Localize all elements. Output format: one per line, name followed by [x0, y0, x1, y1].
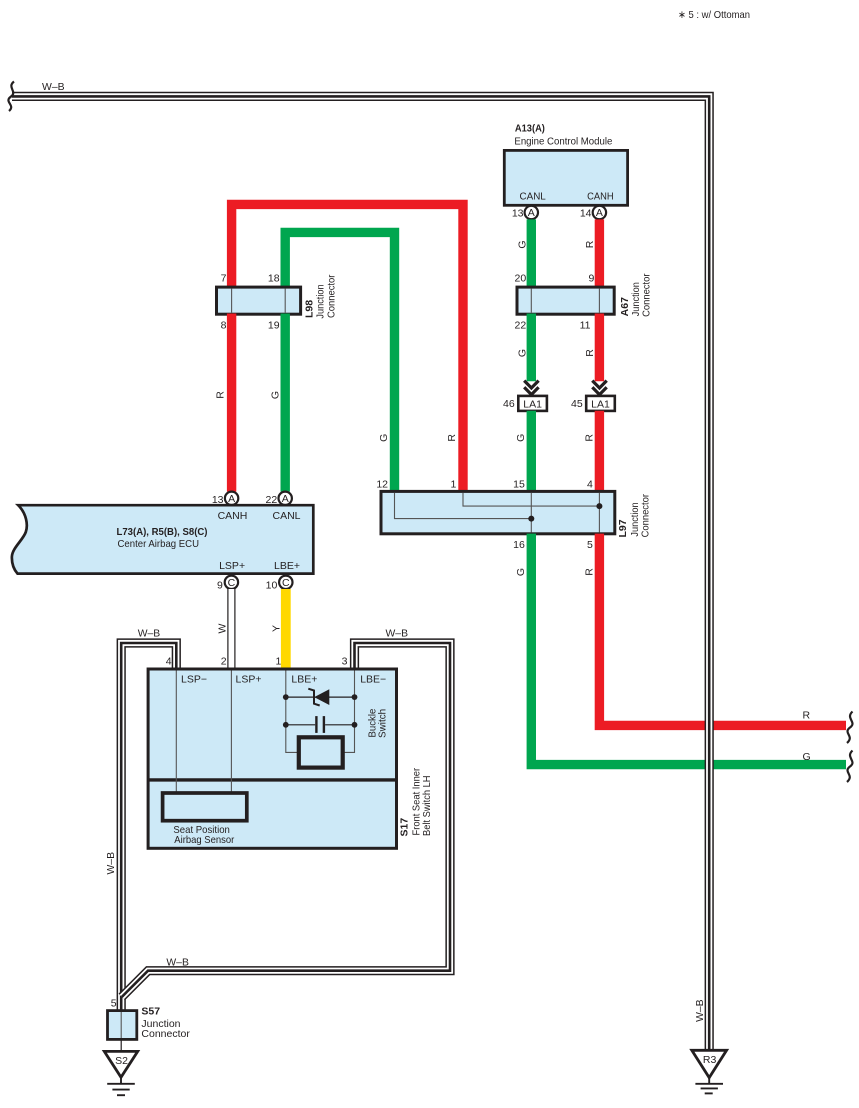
- svg-text:LA1: LA1: [591, 398, 610, 410]
- A67 internal wire lines: [530, 289, 532, 313]
- svg-text:46: 46: [503, 398, 515, 410]
- node dot LBE- capacitor: [352, 722, 358, 728]
- svg-text:CANH: CANH: [218, 510, 248, 522]
- svg-text:9: 9: [588, 272, 594, 284]
- svg-text:13: 13: [512, 207, 524, 219]
- svg-text:W–B: W–B: [138, 628, 161, 640]
- node dot LBE+ capacitor: [283, 722, 289, 728]
- svg-text:A13(A): A13(A): [515, 123, 545, 135]
- S17 internal wire LBE-: [343, 671, 355, 753]
- switch block rectangle: [299, 737, 343, 767]
- zener diode D buckle: [314, 689, 329, 705]
- junction connector A67 box: [517, 287, 614, 314]
- capacitor C plates: [315, 716, 317, 733]
- svg-text:Belt Switch LH: Belt Switch LH: [421, 776, 433, 837]
- svg-text:2: 2: [221, 656, 227, 668]
- node dot LBE- diode: [352, 694, 358, 700]
- wire W-B top and right side: [12, 96, 709, 1050]
- svg-text:R: R: [215, 391, 227, 399]
- wire S57 to S2 ground: [120, 1039, 122, 1051]
- svg-text:5: 5: [587, 539, 593, 551]
- svg-text:4: 4: [166, 656, 172, 668]
- junction connector L98 box: [217, 287, 301, 314]
- connector arrow LA1 pin 45: [592, 381, 606, 395]
- svg-text:L73(A), R5(B), S8(C): L73(A), R5(B), S8(C): [117, 526, 208, 538]
- svg-text:R: R: [584, 349, 596, 357]
- svg-text:LBE+: LBE+: [274, 560, 300, 572]
- svg-text:LSP+: LSP+: [236, 674, 262, 686]
- L97 internal wire pin15 to pin16: [530, 493, 532, 533]
- ground S2 triangle: [104, 1051, 137, 1077]
- svg-text:A: A: [596, 207, 603, 219]
- S17 divider line: [148, 778, 396, 781]
- svg-text:9: 9: [217, 579, 223, 591]
- svg-text:S17: S17: [399, 818, 411, 837]
- svg-text:45: 45: [571, 398, 583, 410]
- svg-text:19: 19: [268, 320, 280, 332]
- svg-text:∗ 5 : w/ Ottoman: ∗ 5 : w/ Ottoman: [678, 9, 750, 21]
- svg-text:C: C: [282, 577, 290, 589]
- S57 internal wire line: [120, 1012, 122, 1038]
- svg-text:5: 5: [111, 998, 117, 1010]
- svg-text:LBE−: LBE−: [360, 674, 386, 686]
- svg-text:G: G: [515, 434, 527, 442]
- svg-text:L97: L97: [617, 519, 629, 537]
- svg-text:8: 8: [221, 320, 227, 332]
- L97 internal wire pin1 to pin4: [463, 493, 599, 506]
- wire R loop L98 pin7 to L97 pin1: [232, 204, 463, 491]
- svg-text:18: 18: [268, 272, 280, 284]
- capacitor row wire: [286, 724, 315, 726]
- svg-text:S2: S2: [115, 1055, 128, 1067]
- svg-text:W–B: W–B: [166, 956, 189, 968]
- break squiggle left end of W-B: [8, 82, 14, 112]
- svg-text:Connector: Connector: [640, 273, 652, 317]
- wire G LA1 to L97 pin 15: [527, 411, 536, 492]
- svg-text:Connector: Connector: [141, 1028, 190, 1040]
- wire G L97 pin16 to right edge: [531, 534, 846, 765]
- wire Y ECU pin 10 to S17 pin 1: [281, 589, 291, 671]
- svg-text:G: G: [803, 751, 811, 763]
- svg-text:G: G: [517, 240, 529, 248]
- svg-text:R: R: [803, 710, 811, 722]
- ground S2 symbol: [107, 1077, 135, 1095]
- svg-text:1: 1: [451, 479, 457, 491]
- wire R A67 to LA1: [595, 314, 604, 382]
- svg-text:15: 15: [513, 479, 525, 491]
- svg-text:G: G: [517, 349, 529, 357]
- wire G CANL ECM to A67: [527, 219, 536, 288]
- wire R L98 to ECU pin 13: [227, 314, 236, 492]
- svg-text:LA1: LA1: [523, 398, 542, 410]
- svg-text:CANL: CANL: [273, 510, 301, 522]
- svg-text:Engine Control Module: Engine Control Module: [514, 135, 612, 147]
- svg-text:Connector: Connector: [325, 274, 337, 318]
- wire G A67 to LA1: [527, 314, 536, 382]
- wire R LA1 to L97 pin 4: [595, 411, 604, 492]
- svg-text:G: G: [515, 568, 527, 576]
- svg-text:LBE+: LBE+: [291, 674, 317, 686]
- S17 internal wire pin2 to sensor: [230, 671, 232, 794]
- svg-text:W–B: W–B: [42, 81, 65, 93]
- svg-text:22: 22: [515, 320, 527, 332]
- svg-text:LSP+: LSP+: [219, 560, 245, 572]
- svg-text:3: 3: [342, 656, 348, 668]
- svg-text:Connector: Connector: [639, 494, 651, 538]
- wire W-B right loop S17 pin3 to S57: [122, 643, 450, 997]
- S17 internal wire pin4 to sensor: [175, 671, 177, 794]
- svg-text:Y: Y: [271, 625, 283, 632]
- svg-text:20: 20: [515, 272, 527, 284]
- break squiggle at green end: [847, 751, 853, 783]
- break squiggle at red end: [847, 712, 853, 744]
- svg-text:W: W: [216, 623, 228, 633]
- ground R3 triangle: [692, 1050, 727, 1077]
- svg-text:R3: R3: [703, 1054, 717, 1066]
- svg-text:4: 4: [587, 479, 593, 491]
- node dot LBE+ diode: [283, 694, 289, 700]
- wire G L98 to ECU pin 22: [281, 314, 290, 492]
- svg-text:R: R: [583, 434, 595, 442]
- svg-text:R: R: [583, 568, 595, 576]
- wire G loop L98 pin18 to L97 pin12: [285, 232, 394, 491]
- L98 internal wire lines: [231, 289, 233, 313]
- junction connector L97 box: [381, 491, 615, 533]
- svg-text:R: R: [446, 434, 458, 442]
- svg-text:12: 12: [376, 479, 388, 491]
- svg-text:10: 10: [266, 579, 278, 591]
- svg-text:Airbag Sensor: Airbag Sensor: [174, 834, 234, 846]
- svg-text:A: A: [282, 493, 289, 505]
- wire W ECU pin 9 to S17 pin 2: [227, 589, 235, 671]
- svg-text:1: 1: [276, 656, 282, 668]
- wire R L97 pin5 to right edge: [599, 534, 846, 726]
- svg-text:14: 14: [580, 207, 592, 219]
- svg-text:7: 7: [221, 272, 227, 284]
- svg-text:G: G: [378, 434, 390, 442]
- svg-text:Center Airbag ECU: Center Airbag ECU: [118, 538, 200, 550]
- svg-text:16: 16: [513, 539, 525, 551]
- junction connector S57 box: [108, 1011, 137, 1040]
- svg-text:W–B: W–B: [694, 999, 706, 1022]
- svg-text:W–B: W–B: [105, 852, 117, 875]
- svg-text:11: 11: [580, 320, 591, 332]
- svg-text:LSP−: LSP−: [181, 674, 207, 686]
- S17 Front Seat Inner Belt Switch box: [148, 669, 396, 848]
- L97 internal wire pin4 to pin5: [598, 493, 600, 533]
- wire R CANH ECM to A67: [595, 219, 604, 288]
- svg-text:A: A: [228, 493, 235, 505]
- svg-text:S57: S57: [141, 1006, 160, 1018]
- S17 internal wire LBE+: [286, 671, 299, 753]
- wire W-B left loop S17 pin4 to S57: [121, 643, 176, 1011]
- svg-text:R: R: [584, 240, 596, 248]
- svg-text:A: A: [528, 207, 535, 219]
- svg-text:G: G: [269, 391, 281, 399]
- connector arrow LA1 pin 46: [524, 381, 538, 395]
- svg-text:CANH: CANH: [587, 190, 614, 202]
- ground R3 symbol: [695, 1078, 723, 1094]
- diode row wire: [286, 696, 355, 698]
- svg-text:CANL: CANL: [520, 190, 546, 202]
- node junction dot G: [528, 516, 534, 522]
- node junction dot R: [596, 503, 602, 509]
- ECM U A13 box: [504, 150, 627, 205]
- svg-text:W–B: W–B: [386, 628, 409, 640]
- L97 internal wire pin12 to pin15: [395, 493, 532, 519]
- ECU L73 Center Airbag ECU box: [12, 505, 313, 573]
- seat position airbag sensor rectangle: [163, 793, 247, 821]
- svg-text:C: C: [228, 577, 236, 589]
- svg-text:Switch: Switch: [377, 709, 389, 738]
